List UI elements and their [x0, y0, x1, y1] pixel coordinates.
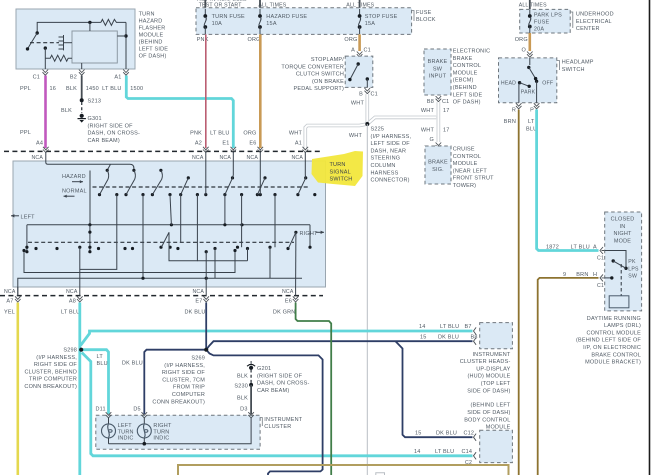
svg-text:NORMAL: NORMAL	[62, 188, 87, 194]
svg-text:INSTRUMENT: INSTRUMENT	[472, 352, 510, 358]
hazard switch pole 7	[296, 176, 307, 196]
resistor R2 (flasher lower)	[45, 55, 72, 61]
svg-text:TURN FUSE: TURN FUSE	[212, 14, 245, 20]
svg-text:C1: C1	[371, 92, 378, 98]
wire PNK turn fuse to A2	[205, 34, 207, 148]
label B8 C1	[427, 99, 450, 105]
svg-text:A1: A1	[295, 140, 302, 146]
svg-text:CAR BEAM): CAR BEAM)	[257, 388, 289, 394]
label WHT 17 (cruise)	[421, 128, 450, 134]
svg-text:BLK: BLK	[61, 108, 72, 114]
wire junction to IC top	[89, 22, 91, 31]
svg-text:FRONT STRUT: FRONT STRUT	[453, 176, 494, 182]
svg-text:E6: E6	[249, 140, 256, 146]
svg-text:1500: 1500	[130, 86, 143, 92]
HUD module (box)	[480, 323, 513, 349]
svg-text:TURN: TURN	[330, 162, 346, 168]
svg-text:PARK LPS: PARK LPS	[534, 13, 562, 19]
wire black right edge	[649, 0, 651, 475]
svg-text:CONNECTOR): CONNECTOR)	[371, 178, 410, 184]
wire LT BLU S298 branch to B7 line	[81, 331, 473, 346]
svg-text:OFF: OFF	[542, 81, 553, 87]
svg-text:NCA: NCA	[219, 155, 231, 161]
svg-text:SIDE OF DASH): SIDE OF DASH)	[467, 410, 510, 416]
svg-text:CONTROL: CONTROL	[453, 154, 481, 160]
label PNK A2	[190, 131, 202, 147]
label LEFT TURN INDIC	[118, 423, 134, 442]
svg-text:E6: E6	[285, 298, 292, 304]
svg-text:WHT: WHT	[351, 101, 365, 107]
svg-text:INDIC: INDIC	[153, 436, 169, 442]
svg-text:SW: SW	[433, 66, 443, 72]
label A C1 stoplamp pin	[351, 48, 371, 54]
wire E1 into box	[232, 161, 235, 178]
svg-text:YEL: YEL	[4, 309, 15, 315]
rear lamps box (cut off, tan)	[178, 465, 509, 475]
wire L-path stationary to A8	[80, 195, 117, 287]
svg-text:D5: D5	[133, 407, 140, 413]
label HAZARD arrow	[62, 174, 86, 183]
label BRAKE SIG.	[428, 160, 448, 173]
stoplamp switch (box)	[345, 56, 373, 87]
svg-text:S213: S213	[88, 99, 102, 105]
cruise brake sig (box)	[425, 146, 451, 184]
svg-text:E1: E1	[222, 140, 229, 146]
svg-text:CRUISE: CRUISE	[453, 147, 475, 153]
BCM text	[464, 403, 511, 431]
svg-text:(BEHIND LEFT SIDE OF: (BEHIND LEFT SIDE OF	[576, 338, 641, 344]
svg-text:RIGHT SIDE OF: RIGHT SIDE OF	[162, 370, 206, 376]
bracket UEC	[570, 12, 573, 28]
label 14 LT BLU B7	[419, 324, 472, 330]
wire E6 riser	[295, 232, 297, 287]
EBCM brake sw input (box)	[424, 49, 451, 95]
svg-text:(TOP LEFT: (TOP LEFT	[481, 381, 511, 387]
pin C1 (flasher)	[43, 70, 49, 76]
svg-text:MODULE: MODULE	[453, 161, 478, 167]
svg-text:BLK: BLK	[66, 86, 77, 92]
pin E1 turn signal switch top	[231, 147, 237, 161]
pin D3 cluster	[248, 412, 254, 418]
pin A4 turn signal switch top	[43, 147, 49, 161]
svg-text:FUSE: FUSE	[534, 20, 550, 26]
turn hazard flasher module (box)	[16, 9, 135, 69]
component stub inside tan box	[376, 473, 385, 475]
svg-text:CLUTCH SWITCH: CLUTCH SWITCH	[296, 72, 344, 78]
svg-text:C1: C1	[442, 99, 449, 105]
svg-text:NCA: NCA	[4, 289, 16, 295]
svg-text:BODY CONTROL: BODY CONTROL	[464, 417, 510, 423]
svg-text:15: 15	[420, 335, 427, 341]
svg-text:S230: S230	[234, 383, 248, 389]
fuse TURN FUSE 10A	[203, 9, 245, 34]
svg-text:PEDAL SUPPORT): PEDAL SUPPORT)	[294, 86, 344, 92]
svg-text:MODULE BRACKET): MODULE BRACKET)	[585, 360, 641, 366]
svg-text:D3: D3	[240, 407, 247, 413]
svg-text:(HUD) MODULE: (HUD) MODULE	[467, 374, 510, 380]
wire pole5 bottom to bus	[223, 195, 226, 227]
resistor R (flasher top)	[101, 19, 126, 25]
cruise text	[453, 147, 494, 190]
pin G cruise	[436, 143, 442, 149]
svg-text:SW: SW	[628, 274, 637, 280]
svg-text:INSTRUMENT: INSTRUMENT	[264, 417, 302, 423]
svg-text:(RIGHT SIDE OF: (RIGHT SIDE OF	[257, 373, 303, 379]
G201 text (cluster)	[257, 366, 310, 394]
wire B2 stub inside flasher	[81, 63, 83, 69]
svg-text:CONN BREAKOUT): CONN BREAKOUT)	[152, 399, 205, 405]
svg-text:LPS: LPS	[628, 266, 639, 272]
pin H DRL	[600, 274, 605, 281]
svg-text:(I/P HARNESS,: (I/P HARNESS,	[371, 134, 412, 140]
label INSTRUMENT CLUSTER	[264, 417, 302, 430]
wire ORG hazard fuse to E6	[259, 34, 262, 148]
svg-text:LT BLU: LT BLU	[571, 245, 590, 251]
turn signal switch (box)	[13, 161, 326, 287]
svg-text:LT BLU: LT BLU	[435, 449, 454, 455]
svg-text:INDIC: INDIC	[118, 436, 134, 442]
wire DK BLU S269 lower branch	[206, 350, 322, 475]
wire DK BLU S269 to D5	[144, 350, 206, 414]
svg-text:HAZARD: HAZARD	[62, 174, 86, 180]
svg-text:G301: G301	[88, 116, 102, 122]
svg-text:14: 14	[419, 324, 426, 330]
svg-text:15: 15	[415, 431, 422, 437]
svg-text:NIGHT: NIGHT	[613, 231, 632, 237]
label 15 DK BLU B8	[420, 335, 478, 341]
wire E7 riser	[205, 252, 207, 287]
svg-text:B7: B7	[465, 324, 472, 330]
svg-text:PNK: PNK	[197, 37, 209, 43]
stoplamp text	[281, 57, 344, 92]
svg-text:1450: 1450	[86, 86, 99, 92]
DRL coil box	[609, 296, 629, 308]
svg-text:C12: C12	[464, 431, 475, 437]
node flasher C1 branch	[44, 46, 47, 49]
wire A1 into box	[304, 161, 306, 178]
wire contact 270 riser	[269, 247, 271, 278]
svg-text:TURN: TURN	[118, 429, 134, 435]
svg-text:NCA: NCA	[192, 155, 204, 161]
svg-text:BLK: BLK	[237, 374, 248, 380]
label TURN SIGNAL SWITCH (highlighted)	[330, 162, 353, 183]
svg-text:NCA: NCA	[291, 155, 303, 161]
svg-text:PK: PK	[628, 259, 636, 265]
svg-text:NCA: NCA	[192, 289, 204, 295]
svg-text:ORG: ORG	[248, 37, 261, 43]
wire LT BLU S298 branch to D11	[81, 350, 108, 414]
bus line upper (left turn)	[27, 225, 310, 252]
lamp RIGHT TURN INDIC	[137, 418, 151, 444]
svg-text:15A: 15A	[266, 21, 277, 27]
svg-text:A8: A8	[69, 298, 76, 304]
node S298	[79, 348, 83, 352]
svg-text:(BEHIND: (BEHIND	[139, 39, 163, 45]
svg-text:BLOCK: BLOCK	[416, 17, 436, 23]
hazard switch pole 6	[256, 176, 267, 196]
turn blade right	[289, 232, 296, 248]
svg-text:TOWER): TOWER)	[453, 183, 476, 189]
svg-text:FLASHER: FLASHER	[139, 25, 166, 31]
S298 text	[24, 348, 77, 391]
wire WHT S225 branch to turn signal switch A1	[305, 124, 367, 148]
label LT BLU vertical	[526, 119, 537, 132]
svg-text:FROM TRIP: FROM TRIP	[173, 385, 205, 391]
svg-text:O: O	[522, 48, 527, 54]
pin B8 HUD	[474, 338, 477, 345]
wire BLK feed park lps fuse	[529, 0, 531, 12]
svg-text:C1: C1	[364, 48, 371, 54]
pin O headlamp switch	[527, 52, 533, 58]
svg-text:LEFT: LEFT	[118, 423, 133, 429]
svg-text:S269: S269	[191, 356, 205, 362]
ground G301	[78, 114, 86, 123]
wire WHT S225 to EBCM vertical	[367, 117, 436, 124]
svg-text:S225: S225	[371, 127, 385, 133]
switch blade (flasher hazard contact)	[26, 31, 39, 50]
svg-text:DASH, ON CROSS-: DASH, ON CROSS-	[257, 381, 310, 387]
svg-text:15A: 15A	[365, 21, 376, 27]
lamp LEFT TURN INDIC	[102, 418, 116, 444]
svg-text:20A: 20A	[534, 27, 545, 33]
label ORG E6	[243, 131, 256, 147]
highlight marker yellow	[312, 151, 364, 186]
svg-text:D11: D11	[96, 407, 106, 413]
flasher module name text	[139, 11, 169, 59]
wire stationary 241 down	[241, 195, 243, 248]
svg-text:BLK: BLK	[237, 396, 248, 402]
svg-text:PPL: PPL	[20, 86, 31, 92]
svg-text:MODULE: MODULE	[453, 70, 478, 76]
fuse HAZARD FUSE 15A	[258, 9, 307, 34]
svg-text:CLUSTER HEADS-: CLUSTER HEADS-	[460, 359, 511, 365]
svg-text:BRAKE: BRAKE	[428, 160, 448, 166]
fuse block (box)	[196, 8, 412, 35]
wire BLK dashed G201 to S230	[250, 370, 252, 384]
svg-text:DK BLU: DK BLU	[185, 309, 206, 315]
svg-text:RIGHT SIDE OF: RIGHT SIDE OF	[34, 362, 78, 368]
svg-text:UP-DISPLAY: UP-DISPLAY	[476, 366, 510, 372]
svg-text:LT BLU: LT BLU	[102, 86, 121, 92]
wire flasher right vertical	[125, 22, 127, 69]
S269 text	[152, 356, 205, 406]
wire ORG UEC to headlamp switch	[528, 33, 531, 51]
svg-text:BLU: BLU	[97, 361, 108, 367]
svg-text:LT BLU: LT BLU	[61, 309, 80, 315]
svg-text:DASH, ON CROSS-: DASH, ON CROSS-	[88, 131, 141, 137]
wire stationary 197 L-path	[169, 195, 248, 261]
pin A7 turn signal switch bottom	[15, 287, 21, 302]
wire BRN H line from bottom	[538, 278, 599, 475]
wire BLK dashed S213 to G301	[81, 102, 83, 113]
DRL internal PK LPS SW	[605, 251, 628, 280]
wire lamp return bus	[109, 418, 252, 446]
wire stationary 143 down	[142, 195, 144, 279]
svg-text:HARNESS: HARNESS	[371, 170, 399, 176]
svg-text:CLUSTER, BEHIND: CLUSTER, BEHIND	[24, 369, 77, 375]
pin P headlamp	[534, 103, 540, 109]
svg-text:UNDERHOOD: UNDERHOOD	[576, 12, 614, 18]
svg-text:SIDE OF DASH): SIDE OF DASH)	[467, 388, 510, 394]
label PK LPS SW	[628, 259, 639, 280]
svg-text:16: 16	[50, 86, 57, 92]
svg-text:STOPLAMP/: STOPLAMP/	[311, 57, 344, 63]
svg-text:LEFT SIDE OF: LEFT SIDE OF	[371, 141, 411, 147]
svg-text:SWITCH: SWITCH	[562, 67, 585, 73]
EBCM text	[453, 49, 490, 106]
bracket instrument cluster	[260, 418, 262, 427]
svg-text:TURN: TURN	[153, 429, 169, 435]
svg-text:WHT: WHT	[289, 131, 303, 137]
svg-text:COMPUTER: COMPUTER	[172, 392, 205, 398]
svg-text:DASH, NEAR: DASH, NEAR	[371, 148, 407, 154]
svg-text:B: B	[359, 92, 363, 98]
svg-text:A4: A4	[36, 140, 43, 146]
svg-text:(BEHIND LEFT: (BEHIND LEFT	[471, 403, 511, 409]
svg-text:WHT: WHT	[421, 128, 435, 134]
wire DK BLU S269 to B8 line	[206, 341, 472, 350]
wire IC right to vertical	[117, 35, 126, 37]
pin A stoplamp	[357, 52, 363, 58]
svg-text:MODULE: MODULE	[139, 32, 164, 38]
svg-text:DK BLU: DK BLU	[438, 335, 459, 341]
UEC text	[576, 12, 614, 33]
svg-text:FUSE: FUSE	[416, 10, 432, 16]
svg-text:B8: B8	[427, 99, 434, 105]
flasher internal top wire	[37, 22, 101, 33]
svg-text:(RIGHT SIDE OF: (RIGHT SIDE OF	[88, 123, 134, 129]
hazard switch pole 5	[223, 176, 234, 196]
labels bottom wire colors	[4, 309, 295, 315]
svg-text:DK BLU: DK BLU	[122, 361, 143, 367]
label RIGHT TURN INDIC	[153, 423, 172, 442]
wire DK BLU branch to C12	[396, 341, 473, 437]
svg-text:C1: C1	[33, 75, 40, 81]
pin B stoplamp	[365, 88, 371, 94]
label 9 BRN H	[563, 272, 597, 278]
svg-text:ELECTRICAL: ELECTRICAL	[576, 19, 612, 25]
svg-text:TURN: TURN	[139, 11, 155, 17]
node S213	[80, 98, 84, 102]
svg-text:CAR BEAM): CAR BEAM)	[88, 138, 120, 144]
nodes on upper bus	[88, 223, 243, 226]
headlamp switch (box)	[499, 58, 557, 103]
svg-text:HAZARD FUSE: HAZARD FUSE	[266, 14, 307, 20]
svg-text:BRAKE CONTROL: BRAKE CONTROL	[591, 352, 641, 358]
svg-text:WHT: WHT	[421, 108, 435, 114]
svg-text:MODULE: MODULE	[486, 425, 511, 431]
bracket headlamp switch	[557, 61, 560, 71]
wire stationary 170 to bus	[170, 195, 171, 225]
label 1872 LT BLU A	[546, 245, 597, 251]
pin C14 BCM	[474, 452, 477, 459]
ground G201 (cluster)	[247, 361, 255, 370]
svg-text:PPL: PPL	[20, 130, 31, 136]
wire BLK S230 to D3	[250, 385, 252, 414]
hazard switch pole 4	[179, 176, 190, 196]
pin B2 (flasher)	[79, 70, 85, 76]
svg-text:C14: C14	[462, 449, 473, 455]
svg-text:NCA: NCA	[31, 155, 43, 161]
label LEFT arrow	[11, 214, 35, 220]
svg-text:ORG: ORG	[243, 131, 256, 137]
label 14 LT BLU C14	[414, 449, 472, 455]
labels NCA bottom row	[4, 289, 294, 295]
wire LT BLU A8 to S298 and down	[78, 303, 81, 475]
svg-text:OF DASH): OF DASH)	[453, 100, 481, 106]
pin R headlamp	[516, 103, 522, 109]
node S225	[365, 122, 369, 126]
svg-text:LAMPS (DRL): LAMPS (DRL)	[604, 323, 641, 329]
svg-text:DAYTIME RUNNING: DAYTIME RUNNING	[587, 316, 641, 322]
svg-text:STEERING: STEERING	[371, 156, 401, 162]
bus line bottom	[18, 277, 302, 296]
fuse PARK LPS FUSE 20A	[528, 10, 562, 33]
svg-text:RIGHT: RIGHT	[300, 231, 319, 237]
wire YEL A7 down	[16, 303, 19, 475]
svg-text:IN: IN	[620, 224, 626, 230]
svg-text:A1: A1	[114, 75, 121, 81]
wire WHT S225 down to bottom	[366, 124, 368, 475]
wire pole4 bottom down	[180, 195, 182, 242]
svg-text:BRN: BRN	[576, 272, 588, 278]
svg-text:HAZARD: HAZARD	[139, 18, 163, 24]
svg-text:ALL TIMES: ALL TIMES	[519, 2, 547, 8]
node flasher right	[124, 34, 127, 37]
pin A1 (flasher)	[123, 70, 129, 76]
label NORMAL arrow	[62, 188, 87, 197]
svg-text:LEFT SIDE: LEFT SIDE	[453, 92, 483, 98]
svg-text:CONN BREAKOUT): CONN BREAKOUT)	[24, 384, 77, 390]
stationary contacts row	[115, 193, 316, 196]
svg-text:CLUSTER, 7CM: CLUSTER, 7CM	[162, 377, 205, 383]
label G301 text	[88, 116, 141, 144]
wire LT BLU A1 flasher to E1	[126, 76, 233, 149]
svg-text:G201: G201	[257, 366, 271, 372]
connector dashed line (bottom)	[0, 295, 323, 297]
body control module (box)	[480, 430, 513, 462]
svg-text:SIG.: SIG.	[432, 167, 444, 173]
svg-text:LT: LT	[97, 354, 104, 360]
svg-text:17: 17	[443, 128, 450, 134]
wire BLK feed stop fuse	[359, 0, 361, 11]
label WHT A1	[289, 131, 303, 147]
wire left feed vertical	[89, 171, 91, 225]
DRL module text	[576, 316, 641, 366]
svg-text:C1: C1	[597, 283, 604, 289]
pin A1 turn signal switch top	[303, 147, 309, 161]
svg-text:9: 9	[563, 272, 566, 278]
HUD text	[460, 352, 511, 395]
svg-text:PNK: PNK	[190, 131, 202, 137]
svg-text:A2: A2	[195, 140, 202, 146]
svg-text:(BEHIND: (BEHIND	[453, 85, 477, 91]
svg-text:14: 14	[414, 449, 421, 455]
wire BLK feed hazard fuse	[259, 0, 261, 11]
svg-text:ORG: ORG	[344, 37, 357, 43]
mechanical dashed line (hazard)	[93, 186, 311, 188]
label PPL lower / A4	[20, 130, 43, 146]
svg-text:TORQUE CONVERTER: TORQUE CONVERTER	[281, 64, 344, 70]
svg-text:A: A	[593, 245, 597, 251]
svg-text:ORG: ORG	[515, 37, 528, 43]
svg-text:E7: E7	[195, 298, 202, 304]
pin A2 turn signal switch top	[203, 147, 209, 161]
node S230	[249, 383, 253, 387]
svg-text:B2: B2	[70, 75, 77, 81]
svg-text:LEFT: LEFT	[21, 214, 36, 220]
pin E7 turn signal switch bottom	[203, 287, 209, 302]
